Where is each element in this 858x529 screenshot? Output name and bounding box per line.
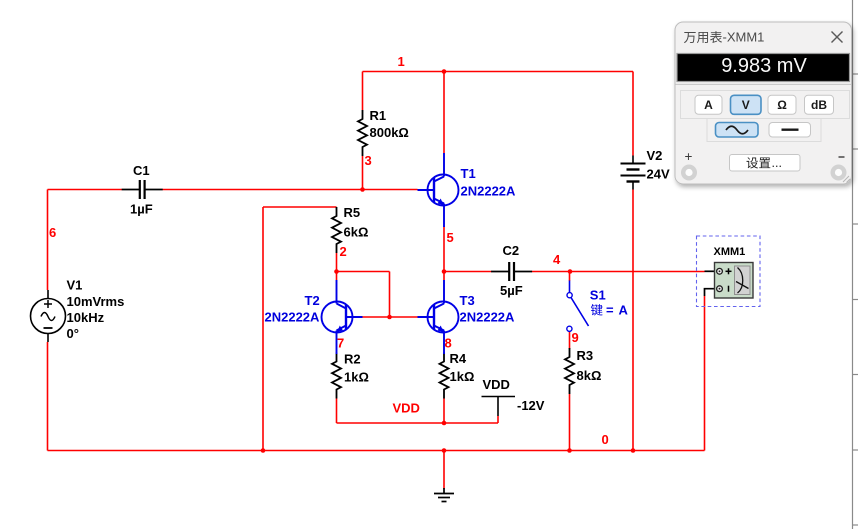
svg-text:0: 0 [602, 432, 609, 447]
transistor T2 [322, 280, 363, 354]
panel separator under display [676, 83, 852, 85]
resistor R5 [332, 205, 368, 253]
wire VDD stem red [497, 416, 499, 423]
wire R4 bottom [443, 399, 445, 424]
wire T2 base to T3 base [363, 316, 418, 318]
svg-text:1µF: 1µF [130, 202, 153, 217]
wire V1 top / node 6 [47, 190, 49, 291]
canvas page border line [853, 0, 858, 529]
panel resize grip [843, 176, 850, 183]
svg-text:Ω: Ω [777, 98, 787, 112]
svg-text:3: 3 [365, 153, 372, 168]
resistor R3 [565, 348, 601, 394]
AC source V1 [31, 290, 66, 342]
svg-text:-XMM1: -XMM1 [723, 30, 765, 45]
svg-text:5µF: 5µF [500, 283, 523, 298]
junction node 5 [442, 269, 447, 274]
wire XMM1 minus drop [704, 296, 706, 451]
wire S1 top [569, 272, 571, 282]
svg-text:R2: R2 [344, 352, 361, 367]
svg-text:1: 1 [398, 54, 405, 69]
resistor R1 [358, 108, 409, 156]
wire C2 to node 4 [532, 271, 570, 273]
wire VDD rail [337, 422, 499, 424]
svg-text:2N2222A: 2N2222A [265, 310, 321, 325]
svg-text:C1: C1 [133, 163, 150, 178]
svg-text:5: 5 [447, 230, 454, 245]
svg-text:9.983 mV: 9.983 mV [721, 55, 807, 77]
wire R5 top horizontal [263, 206, 337, 208]
wire input rail left [48, 189, 123, 191]
panel title [684, 30, 764, 45]
junction node 4 [568, 269, 573, 274]
wire R3 bottom [569, 394, 571, 451]
svg-text:9: 9 [572, 330, 579, 345]
svg-text:1kΩ: 1kΩ [344, 370, 369, 385]
svg-text:10mVrms: 10mVrms [67, 294, 125, 309]
wire S1 to R3 / node 9 [569, 332, 571, 349]
svg-text:7: 7 [337, 336, 344, 351]
panel AC button [716, 123, 759, 138]
wire V1 bottom [47, 342, 49, 451]
svg-text:dB: dB [811, 98, 827, 112]
svg-text:T1: T1 [461, 166, 476, 181]
svg-text:R3: R3 [577, 348, 594, 363]
panel settings button 设置... [730, 155, 801, 172]
svg-text:2N2222A: 2N2222A [461, 184, 517, 199]
junction R3 ground [567, 448, 572, 453]
svg-text:V: V [742, 98, 750, 112]
resistor R4 [440, 351, 475, 399]
svg-text:VDD: VDD [393, 401, 420, 416]
wire T1 collector to rail [443, 72, 445, 154]
panel buttons A V ohm dB [695, 95, 722, 114]
junction node 3 [360, 187, 365, 192]
svg-text:2N2222A: 2N2222A [460, 310, 516, 325]
svg-text:10kHz: 10kHz [67, 310, 105, 325]
svg-text:2: 2 [340, 244, 347, 259]
junction node 1 [442, 69, 447, 74]
svg-text:8kΩ: 8kΩ [577, 368, 602, 383]
svg-text:8: 8 [445, 336, 452, 351]
wire base feed vertical [389, 272, 391, 318]
svg-text:...: ... [772, 156, 782, 170]
wire V2 bottom [632, 190, 634, 451]
wire R5 ground branch vertical [262, 207, 264, 451]
junction V2 ground [631, 448, 636, 453]
wire node 1 top rail [363, 71, 634, 73]
svg-text:R4: R4 [450, 351, 467, 366]
svg-text:+: + [685, 149, 693, 164]
wire T2 collector [336, 272, 338, 281]
wire R1 top [362, 72, 364, 111]
wire node 5 to C2 [444, 271, 492, 273]
svg-text:6kΩ: 6kΩ [344, 225, 369, 240]
junction node 2 [334, 269, 339, 274]
svg-text:T3: T3 [460, 293, 475, 308]
battery V2 [621, 156, 646, 190]
junction bases [387, 315, 392, 320]
wire R2 bottom [336, 399, 338, 424]
junction ground [442, 448, 447, 453]
panel display 9.983 mV [677, 54, 850, 82]
wire node 3 to T1 base [163, 189, 418, 191]
panel minus terminal [831, 157, 847, 181]
svg-text:C2: C2 [503, 243, 520, 258]
switch S1 [567, 281, 589, 332]
svg-text:R5: R5 [344, 205, 361, 220]
instrument XMM1 icon [697, 236, 761, 307]
svg-text:S1: S1 [590, 287, 606, 302]
wire node 4 to XMM1 plus [570, 271, 705, 273]
capacitor C1 [122, 163, 163, 217]
svg-text:VDD: VDD [483, 377, 510, 392]
svg-text:800kΩ: 800kΩ [370, 125, 409, 140]
wire T1 emitter / node 5 [443, 226, 445, 272]
transistor T3 [418, 280, 459, 354]
svg-text:A: A [619, 303, 629, 318]
svg-text:A: A [704, 98, 713, 112]
svg-text:6: 6 [49, 225, 56, 240]
panel mode group frames [681, 91, 850, 142]
resistor R2 [332, 352, 369, 399]
multimeter panel window 万用表-XMM1 [675, 22, 852, 184]
svg-text:V2: V2 [647, 148, 663, 163]
power symbol VDD -12V [482, 397, 516, 417]
svg-text:-12V: -12V [517, 398, 545, 413]
panel close button [832, 32, 843, 43]
transistor T1 [418, 153, 459, 227]
svg-text:4: 4 [553, 252, 561, 267]
wire R5 bottom / node 2 [336, 253, 338, 272]
wire node 0 bottom rail [48, 450, 705, 452]
junction VDD rail [442, 421, 447, 426]
panel DC button [769, 123, 811, 138]
svg-text:XMM1: XMM1 [714, 246, 746, 258]
ground [434, 488, 454, 502]
svg-text:=: = [606, 303, 614, 318]
svg-text:V1: V1 [67, 278, 83, 293]
wire R1 bottom [362, 156, 364, 190]
svg-text:1kΩ: 1kΩ [450, 369, 475, 384]
svg-text:T2: T2 [305, 293, 320, 308]
wire ground stem [443, 451, 445, 490]
wire T3 collector stub [443, 272, 445, 281]
svg-text:0°: 0° [67, 326, 79, 341]
svg-text:R1: R1 [370, 108, 387, 123]
switch S1 key label 键 = A [591, 303, 629, 318]
capacitor C2 [491, 243, 532, 298]
panel plus terminal [681, 149, 697, 181]
junction bottom rail left [261, 448, 266, 453]
wire V2 top [632, 72, 634, 156]
svg-text:24V: 24V [647, 167, 670, 182]
wire node 2 to base feed [337, 271, 390, 273]
